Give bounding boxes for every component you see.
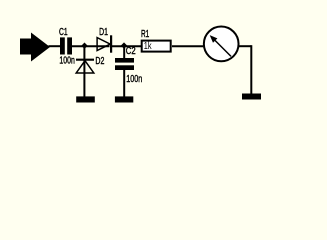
meter M1 [204, 27, 239, 62]
input signal arrow [20, 33, 50, 62]
wire: D1 to R1 [112, 45, 142, 47]
capacitor C1 [60, 37, 72, 54]
wire: C1 to D1 [72, 45, 110, 47]
node junction 1 [81, 43, 87, 49]
wire: R1 to meter [172, 45, 203, 47]
ground (meter branch) [242, 94, 261, 100]
svg-text:R1: R1 [141, 29, 150, 40]
diode D2 [76, 60, 94, 73]
wire: arrow tip to C1 [49, 45, 61, 47]
capacitor C2 [115, 58, 134, 70]
svg-text:D2: D2 [95, 56, 104, 67]
wire: meter to corner and down [239, 45, 251, 93]
svg-text:100n: 100n [126, 74, 142, 85]
svg-text:1k: 1k [144, 41, 153, 52]
diode D1 [97, 35, 111, 52]
wire: node 1 down through D2 to ground [83, 46, 85, 97]
resistor R1 [142, 41, 171, 52]
ground (C2 branch) [115, 96, 133, 102]
svg-text:C1: C1 [59, 27, 68, 38]
svg-text:100n: 100n [59, 56, 74, 67]
svg-text:D1: D1 [99, 27, 108, 38]
wire: C2 to ground [123, 70, 125, 97]
node junction 2 [121, 42, 127, 48]
ground (D2 branch) [76, 96, 95, 102]
wire: node 2 down to C2 [123, 46, 125, 58]
svg-text:C2: C2 [126, 46, 136, 57]
